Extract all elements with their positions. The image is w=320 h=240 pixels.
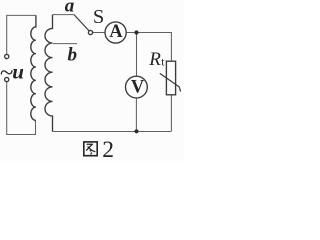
svg-text:b: b (68, 44, 78, 65)
svg-text:V: V (131, 77, 145, 97)
svg-text:u: u (12, 59, 24, 83)
svg-text:A: A (109, 22, 123, 42)
svg-text:2: 2 (102, 137, 114, 161)
svg-text:a: a (65, 0, 75, 16)
svg-text:S: S (93, 6, 104, 28)
svg-text:R: R (148, 49, 161, 70)
svg-text:t: t (161, 56, 165, 68)
